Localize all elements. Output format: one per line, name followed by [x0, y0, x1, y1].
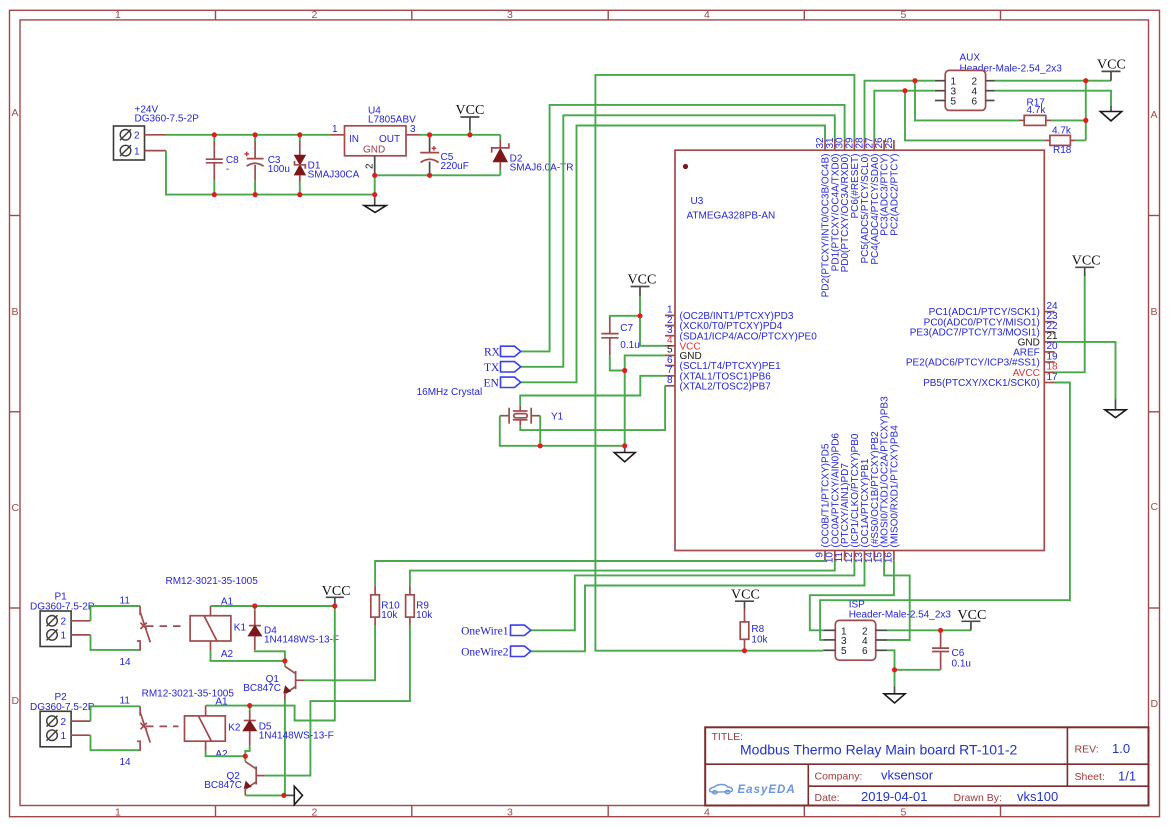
- U3 pin 25: [884, 137, 901, 236]
- junction: [253, 192, 258, 197]
- diode D4 1N4148WS-13-F: [248, 606, 339, 650]
- wire U3 pin12 to OneWire1: [531, 560, 855, 630]
- junction: [427, 132, 432, 137]
- resistor R17 4.7k: [1019, 97, 1051, 125]
- junction: [253, 132, 258, 137]
- junction: [297, 132, 302, 137]
- U3 pin 1: [665, 305, 794, 322]
- svg-text:14: 14: [120, 657, 132, 668]
- svg-text:TITLE:: TITLE:: [712, 731, 744, 743]
- svg-text:C7: C7: [620, 323, 633, 334]
- ground: [364, 195, 386, 213]
- svg-text:OUT: OUT: [379, 134, 400, 145]
- regulator U4 L7805ABV: [331, 106, 420, 176]
- svg-text:B: B: [1151, 306, 1158, 318]
- svg-text:B: B: [12, 306, 19, 318]
- connector P1 DG360-7.5-2P: [30, 592, 95, 647]
- wire C6 bottom: [895, 669, 941, 671]
- U3 pin 18 AVCC: [1013, 362, 1058, 379]
- svg-text:R18: R18: [1053, 145, 1072, 156]
- svg-text:RM12-3021-35-1005: RM12-3021-35-1005: [166, 576, 259, 587]
- U3 pin 22: [910, 321, 1058, 338]
- svg-text:VCC: VCC: [456, 103, 485, 118]
- ground: [614, 446, 635, 462]
- wire AUX pin4 to ground: [995, 91, 1112, 106]
- svg-text:EasyEDA: EasyEDA: [738, 784, 796, 796]
- U3 pin 31: [825, 137, 842, 271]
- svg-text:A: A: [12, 107, 19, 119]
- wire K1 A1 rail: [211, 605, 335, 607]
- capacitor C6 0.1u: [932, 630, 971, 670]
- wire RXD U3 pin30 to RX: [521, 105, 845, 352]
- svg-text:1N4148WS-13-F: 1N4148WS-13-F: [264, 634, 339, 645]
- port OneWire1: [461, 625, 531, 638]
- relay coil K1 RM12-3021-35-1005: [190, 597, 246, 661]
- junction: [1083, 78, 1088, 83]
- U3 pin 3: [665, 325, 817, 342]
- junction: [902, 88, 907, 93]
- title block REV field: [1075, 741, 1131, 756]
- wire U3 pin9 to R10: [375, 560, 825, 586]
- wire U3 pin16 to ISP pin1: [810, 560, 894, 630]
- U3 pin 16: [883, 425, 900, 563]
- wire R18 to VCC rail: [1076, 139, 1086, 141]
- power flag VCC: [1097, 58, 1126, 81]
- U3 pin 29: [844, 137, 861, 219]
- junction: [372, 173, 377, 178]
- junction: [281, 793, 286, 798]
- svg-text:0.1u: 0.1u: [620, 340, 639, 351]
- svg-text:3: 3: [507, 9, 513, 21]
- svg-text:-: -: [226, 164, 229, 175]
- svg-text:10k: 10k: [751, 634, 768, 645]
- junction: [892, 667, 897, 672]
- wire U3 pin21 to ground: [1055, 342, 1116, 399]
- svg-text:5: 5: [901, 806, 907, 818]
- wire Q1 emitter to ground rail: [284, 700, 286, 795]
- wire K1 A2 rail: [211, 651, 285, 661]
- wire crystal case right to gnd: [539, 416, 541, 446]
- header ISP Header-Male-2.54_2x3: [823, 600, 951, 661]
- svg-text:1: 1: [134, 146, 140, 157]
- wire C7 top: [610, 316, 640, 317]
- U3 pin 13: [854, 458, 871, 563]
- power flag VCC: [456, 103, 485, 135]
- junction: [297, 192, 302, 197]
- junction: [637, 313, 642, 318]
- wire ISP pin2 to VCC: [887, 629, 971, 631]
- svg-text:AUX: AUX: [960, 53, 981, 64]
- svg-text:ATMEGA328PB-AN: ATMEGA328PB-AN: [687, 211, 776, 222]
- junction: [912, 78, 917, 83]
- resistor R18 4.7k: [1045, 126, 1076, 157]
- transistor Q1 BC847C: [243, 661, 304, 700]
- wire C7 bottom to gnd net: [610, 355, 625, 370]
- svg-text:C6: C6: [952, 648, 965, 659]
- svg-text:1: 1: [115, 806, 121, 818]
- svg-text:Sheet:: Sheet:: [1075, 771, 1105, 783]
- U3 pin 21 GND: [1018, 331, 1058, 348]
- svg-text:TX: TX: [484, 362, 500, 374]
- svg-text:1: 1: [61, 631, 67, 642]
- wire R18 branch: [905, 91, 1045, 141]
- U3 pin 11: [834, 463, 851, 563]
- svg-text:VCC: VCC: [731, 588, 760, 603]
- svg-text:Header-Male-2.54_2x3: Header-Male-2.54_2x3: [849, 610, 952, 621]
- resistor R8 10k: [740, 609, 768, 651]
- wire K2 A2 rail: [206, 751, 246, 756]
- svg-text:C: C: [1151, 501, 1159, 513]
- svg-text:11: 11: [120, 696, 131, 707]
- transistor Q2 BC847C: [204, 756, 265, 795]
- svg-text:Modbus Thermo Relay Main board: Modbus Thermo Relay Main board RT-101-2: [740, 742, 1018, 758]
- MCU U3 ATMEGA328PB-AN: [675, 150, 1044, 550]
- U3 pin 8: [665, 375, 771, 392]
- U3 pin 20 AREF: [1013, 341, 1058, 358]
- svg-text:5: 5: [901, 9, 907, 21]
- U3 pin 19: [906, 351, 1058, 368]
- junction: [467, 132, 472, 137]
- svg-text:1: 1: [61, 731, 67, 742]
- wire U4 gnd drop: [374, 175, 376, 194]
- wire crystal case left to gnd: [500, 416, 625, 446]
- label relay model K1: [166, 576, 259, 587]
- U3 pin 7: [665, 365, 771, 382]
- svg-text:IN: IN: [349, 134, 359, 145]
- svg-text:2019-04-01: 2019-04-01: [861, 789, 928, 804]
- wire mid rail: [375, 174, 501, 176]
- svg-text:1N4148WS-13-F: 1N4148WS-13-F: [259, 730, 334, 741]
- U3 pin 26: [874, 137, 891, 236]
- svg-text:BC847C: BC847C: [204, 780, 242, 791]
- wire U3 pin13 to OneWire2: [531, 560, 865, 651]
- wire P1 pin2 to contact 11: [91, 606, 141, 621]
- capacitor C7 0.1u: [601, 317, 639, 355]
- svg-text:K2: K2: [228, 723, 241, 734]
- svg-text:Company:: Company:: [815, 770, 863, 782]
- diode D5 1N4148WS-13-F: [243, 706, 334, 746]
- svg-text:VCC: VCC: [1097, 58, 1126, 73]
- svg-text:D: D: [12, 695, 20, 707]
- wire AUX pin2 to VCC: [995, 80, 1112, 82]
- svg-text:6: 6: [972, 96, 978, 107]
- junction: [427, 173, 432, 178]
- svg-text:PC2(ADC2/PTCY): PC2(ADC2/PTCY): [889, 154, 900, 236]
- svg-text:OneWire2: OneWire2: [461, 647, 509, 659]
- svg-text:RX: RX: [484, 347, 501, 359]
- power flag VCC: [628, 273, 657, 297]
- wire INT U3 pin32 to EN: [521, 126, 825, 383]
- power flag VCC (ISP): [958, 608, 987, 630]
- svg-text:4: 4: [704, 806, 710, 818]
- port RX: [484, 346, 521, 358]
- wire U3 pin5 GND: [625, 355, 665, 445]
- relay contact K2: [120, 696, 179, 769]
- port OneWire2: [461, 646, 531, 659]
- svg-text:GND: GND: [363, 145, 385, 156]
- svg-text:1: 1: [332, 124, 338, 135]
- EasyEDA logo: [710, 784, 796, 796]
- wire RESET U3 pin29 to ISP pin5: [595, 75, 854, 651]
- wire D5 anode to Q2 collector node: [245, 746, 249, 756]
- junction: [742, 648, 747, 653]
- U3 pin 27: [864, 137, 881, 265]
- ground: [884, 686, 905, 703]
- capacitor C3 100u: [244, 135, 290, 195]
- wire U3 pin15 to ISP pin4: [884, 560, 910, 640]
- svg-text:6: 6: [862, 646, 868, 657]
- svg-text:16: 16: [883, 552, 894, 564]
- resistor R10 10k: [371, 586, 400, 626]
- diode D2 SMAJ6.0A-TR: [492, 135, 574, 176]
- wire Q2 emitter to ground: [245, 794, 284, 796]
- U3 pin 9: [815, 443, 832, 560]
- wire U4 out rail: [420, 134, 501, 136]
- svg-text:D: D: [1151, 698, 1159, 710]
- svg-text:220uF: 220uF: [441, 161, 469, 172]
- TVS diode D1 SMAJ30CA: [295, 135, 360, 195]
- wire VCC to K2 A1 rail: [206, 606, 335, 721]
- port EN: [484, 377, 521, 389]
- wire AUX pin1 to U3 pin28: [865, 81, 935, 140]
- junction: [622, 443, 627, 448]
- connector +24V DG360-7.5-2P: [114, 104, 200, 160]
- svg-text:vksensor: vksensor: [881, 767, 934, 782]
- junction: [252, 603, 257, 608]
- U3 pin 32: [815, 137, 832, 297]
- wire R10 to Q1 base: [304, 625, 375, 680]
- svg-text:U3: U3: [691, 196, 704, 207]
- svg-text:1: 1: [115, 9, 121, 21]
- title block Sheet field: [1075, 769, 1137, 784]
- ground: [1100, 106, 1121, 121]
- wire P2 pin1 to contact 14: [91, 735, 141, 750]
- U3 pin 2: [665, 315, 783, 332]
- svg-text:C: C: [12, 502, 20, 514]
- junction: [372, 192, 377, 197]
- junction: [212, 132, 217, 137]
- svg-text:2: 2: [312, 806, 318, 818]
- svg-text:16MHz Crystal: 16MHz Crystal: [417, 387, 483, 398]
- power flag VCC (R8): [731, 588, 760, 609]
- label relay model K2: [142, 688, 235, 699]
- title block: [705, 727, 1148, 805]
- svg-text:2: 2: [61, 717, 67, 728]
- svg-text:Date:: Date:: [815, 792, 840, 804]
- U3 pin 12: [844, 433, 861, 563]
- svg-text:PB5(PTCXY/XCK1/SCK0): PB5(PTCXY/XCK1/SCK0): [923, 378, 1040, 389]
- port TX: [484, 362, 521, 374]
- svg-text:DG360-7.5-2P: DG360-7.5-2P: [135, 113, 200, 124]
- capacitor C8: [206, 135, 239, 195]
- U3 pin 5 GND: [665, 345, 702, 362]
- svg-text:BC847C: BC847C: [243, 683, 281, 694]
- svg-text:8: 8: [667, 375, 673, 386]
- svg-text:25: 25: [884, 137, 895, 149]
- wire P1 pin1 to contact 14: [91, 635, 141, 650]
- svg-text:OneWire1: OneWire1: [461, 626, 509, 638]
- title block TITLE field: [712, 731, 1018, 758]
- relay coil K2 RM12-3021-35-1005: [185, 696, 241, 760]
- wire VCC to U3 pin4: [640, 296, 665, 346]
- junction: [243, 754, 248, 759]
- svg-text:3: 3: [507, 806, 513, 818]
- svg-text:A1: A1: [215, 696, 228, 707]
- U3 pin 14: [864, 431, 881, 563]
- ground (arrow style): [284, 786, 303, 804]
- svg-text:VCC: VCC: [1072, 254, 1101, 269]
- junction: [332, 603, 337, 608]
- wire AUX pin3 to U3 pin27: [874, 91, 935, 140]
- svg-text:2: 2: [312, 9, 318, 21]
- relay contact K1: [120, 595, 185, 668]
- svg-text:K1: K1: [234, 622, 247, 633]
- svg-text:2: 2: [61, 617, 67, 628]
- svg-text:17: 17: [1047, 372, 1059, 383]
- svg-text:10k: 10k: [381, 610, 398, 621]
- wire ISP pin6 to ground: [887, 650, 895, 686]
- U3 pin 24: [929, 301, 1058, 318]
- junction: [938, 628, 943, 633]
- header AUX Header-Male-2.54_2x3: [935, 53, 1062, 111]
- svg-text:2: 2: [365, 163, 376, 169]
- wire D4 anode to Q1 collector node: [255, 650, 285, 661]
- U3 pin 23: [924, 311, 1058, 328]
- svg-text:(XTAL2/TOSC2)PB7: (XTAL2/TOSC2)PB7: [680, 381, 772, 392]
- svg-text:A2: A2: [215, 749, 228, 760]
- junction: [247, 703, 252, 708]
- capacitor C5 220uF: [420, 135, 469, 176]
- svg-text:0.1u: 0.1u: [952, 658, 971, 669]
- crystal Y1 16MHz: [417, 387, 564, 425]
- svg-text:1.0: 1.0: [1112, 741, 1130, 756]
- svg-text:1/1: 1/1: [1118, 769, 1136, 784]
- U3 pin 17: [923, 372, 1058, 389]
- wire U3 pin10 to R9: [410, 560, 835, 586]
- svg-text:100u: 100u: [268, 164, 290, 175]
- svg-text:5: 5: [841, 646, 847, 657]
- svg-text:vks100: vks100: [1017, 789, 1058, 804]
- junction: [1083, 118, 1088, 123]
- svg-text:EN: EN: [484, 378, 500, 390]
- wire AVCC U3 pin18: [1055, 276, 1085, 372]
- wire P2 pin2 to contact 11: [91, 706, 141, 721]
- svg-text:(MISO0/RXD1/PTCXY)PB4: (MISO0/RXD1/PTCXY)PB4: [889, 425, 900, 548]
- svg-text:10k: 10k: [416, 610, 433, 621]
- wire R17 branch: [915, 81, 1019, 121]
- wire +24V return rail: [166, 151, 375, 195]
- wire U3 pin8 XTAL2: [520, 386, 665, 430]
- junction: [212, 192, 217, 197]
- wire +24V top rail: [166, 134, 331, 136]
- svg-text:5: 5: [951, 96, 957, 107]
- U3 pin 10: [824, 433, 841, 564]
- title block Company field: [815, 767, 934, 782]
- title block Date field: [815, 789, 1059, 804]
- svg-text:Drawn By:: Drawn By:: [954, 792, 1002, 804]
- svg-text:REV:: REV:: [1075, 744, 1099, 756]
- junction: [282, 658, 287, 663]
- U3 pin 30: [835, 137, 852, 272]
- svg-text:4.7k: 4.7k: [1027, 105, 1047, 116]
- U3 pin 15: [874, 396, 891, 563]
- wire R9 to Q2 base: [265, 625, 410, 775]
- power flag VCC (relays): [322, 584, 351, 606]
- svg-text:SMAJ30CA: SMAJ30CA: [308, 169, 360, 180]
- svg-text:VCC: VCC: [628, 273, 657, 288]
- ground: [1105, 399, 1126, 418]
- svg-text:A2: A2: [221, 649, 234, 660]
- svg-text:2: 2: [134, 131, 140, 142]
- power flag VCC (AVCC): [1072, 254, 1101, 277]
- U3 pin 28: [855, 137, 872, 264]
- U3 pin 6: [665, 355, 781, 372]
- junction: [538, 443, 543, 448]
- svg-text:14: 14: [120, 757, 132, 768]
- svg-text:A: A: [1151, 109, 1158, 121]
- junction: [622, 368, 627, 373]
- U3 pin 4 VCC: [665, 335, 701, 352]
- connector P2 DG360-7.5-2P: [30, 692, 95, 747]
- wire R17 to VCC rail: [1051, 81, 1086, 141]
- svg-text:L7805ABV: L7805ABV: [368, 115, 416, 126]
- svg-text:Y1: Y1: [551, 412, 564, 423]
- svg-text:4: 4: [704, 9, 710, 21]
- wire U3 pin7 XTAL1: [520, 376, 665, 406]
- wire SCK U3 pin17 to ISP pin3: [820, 383, 1070, 640]
- wire TXD U3 pin31 to TX: [521, 115, 835, 366]
- svg-text:R8: R8: [751, 624, 764, 635]
- svg-text:3: 3: [410, 124, 416, 135]
- resistor R9 10k: [406, 586, 434, 626]
- svg-text:11: 11: [120, 595, 131, 606]
